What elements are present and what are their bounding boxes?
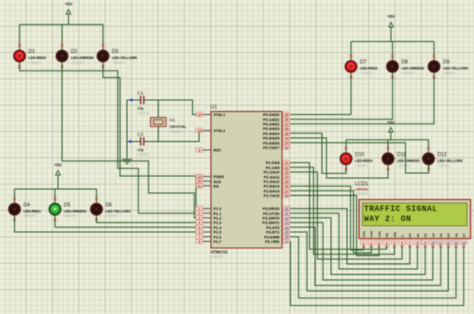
wire U1 P0.4 to D10 cathode: [291, 133, 347, 173]
wire C1 to U1 XTAL1: [144, 100, 203, 115]
LCD1 pin 12 D5: [445, 233, 451, 248]
svg-text:LED-GREEN3: LED-GREEN3: [397, 159, 420, 163]
svg-text:<TEXT>: <TEXT>: [24, 214, 37, 218]
svg-text:P3.1/TXD: P3.1/TXD: [263, 212, 280, 216]
wire crystal bottom pin: [157, 127, 159, 142]
svg-text:27: 27: [285, 189, 289, 193]
svg-text:PSEN: PSEN: [214, 175, 225, 179]
wire D8 cathode to U1 P0.1: [291, 72, 393, 119]
svg-text:25: 25: [285, 180, 289, 184]
svg-text:D5: D5: [64, 202, 71, 208]
svg-text:CRYSTAL: CRYSTAL: [170, 125, 188, 129]
U1 pin 39 P0.0/AD0: [263, 112, 290, 117]
U1 pin 11 P3.1/TXD: [263, 211, 290, 216]
svg-text:32: 32: [285, 146, 289, 150]
svg-text:P0.1/AD1: P0.1/AD1: [263, 118, 279, 122]
svg-text:LED-YELLOW1: LED-YELLOW1: [106, 209, 131, 213]
LCD1 pin 4 RS: [384, 233, 390, 248]
U1 pin 27 P2.6/A14: [264, 189, 291, 194]
wire rail to D5 anode: [54, 189, 56, 203]
svg-text:AT89C51: AT89C51: [211, 250, 229, 255]
U1 pin 1 P1.0: [196, 206, 221, 211]
svg-text:RS: RS: [385, 233, 389, 237]
U1 pin 25 P2.4/A12: [264, 179, 291, 184]
svg-text:P1.5: P1.5: [214, 231, 222, 235]
svg-text:15: 15: [285, 231, 289, 235]
wire rail to D11 anode: [387, 140, 389, 153]
LCD1 pin 8 D1: [415, 233, 421, 248]
svg-text:39: 39: [285, 113, 289, 117]
wire U1 P3.2 to LCD D2: [291, 218, 426, 275]
wire U1 P3.0 to LCD D0: [291, 209, 410, 265]
svg-text:LED-GREEN0: LED-GREEN0: [71, 56, 94, 60]
LED D10 LED-RED3: [340, 147, 372, 171]
svg-text:WAY 2: ON: WAY 2: ON: [364, 215, 411, 224]
LED D1 LED-RED0: [14, 44, 46, 68]
svg-text:30: 30: [198, 180, 202, 184]
LED D12 LED-YELLOW3: [423, 147, 463, 171]
svg-text:<TEXT>: <TEXT>: [29, 61, 42, 65]
svg-text:P1.4: P1.4: [214, 226, 223, 230]
svg-text:P3.0/RXD: P3.0/RXD: [263, 207, 280, 211]
svg-text:36: 36: [285, 127, 289, 131]
wire D2 cathode to U1 P1.2: [62, 62, 203, 218]
svg-text:D2: D2: [71, 49, 78, 55]
svg-text:7: 7: [409, 241, 411, 245]
wire rail to D2 anode: [61, 25, 63, 51]
svg-text:D2: D2: [424, 233, 428, 237]
U1 pin 37 P0.2/AD2: [263, 122, 290, 127]
U1 pin 6 P1.5: [196, 230, 221, 235]
U1 pin 23 P2.2/A10: [264, 170, 291, 175]
U1 pin 34 P0.5/AD5: [263, 136, 290, 141]
svg-text:D8: D8: [402, 60, 409, 66]
wire D7 cathode to U1 P0.0: [291, 72, 352, 114]
capacitor C2 22p: [127, 132, 150, 157]
crystal X1: [151, 100, 188, 142]
svg-text:+5V: +5V: [65, 2, 73, 7]
power +5V terminal (mid-left): [54, 163, 62, 190]
LCD1 pin 13 D6: [453, 233, 459, 248]
svg-text:28: 28: [285, 194, 289, 198]
U1 pin 7 P1.6: [196, 234, 221, 239]
svg-text:VEE: VEE: [377, 231, 381, 237]
U1 pin 19 XTAL1: [196, 112, 225, 117]
svg-text:3: 3: [199, 216, 201, 220]
svg-text:RST: RST: [214, 149, 222, 153]
LCD1 pin 10 D3: [430, 233, 436, 248]
U1 pin 2 P1.1: [196, 211, 221, 216]
svg-text:P0.3/AD3: P0.3/AD3: [263, 127, 279, 131]
LED D3 LED-YELLOW0: [97, 44, 137, 68]
wire rail to D4 anode: [14, 189, 16, 203]
wire U1 P3.1 to LCD D1: [291, 213, 418, 269]
LCD LCD1 LM016L display: [355, 182, 471, 239]
svg-text:14: 14: [462, 241, 466, 245]
wire D9 cathode to U1 P0.2: [291, 72, 435, 124]
wire U1 P3.7 to LCD D7: [291, 241, 464, 305]
wire U1 P2.5 to LCD VSS: [291, 186, 364, 250]
wire +5V rail (D10-D12): [346, 139, 429, 141]
svg-text:<TEXT>: <TEXT>: [170, 130, 183, 134]
svg-text:<TEXT>: <TEXT>: [438, 164, 451, 168]
svg-text:D0: D0: [408, 233, 412, 237]
svg-text:5: 5: [199, 226, 201, 230]
svg-text:23: 23: [285, 171, 289, 175]
U1 pin 30 ALE: [196, 179, 222, 184]
LED D6 LED-YELLOW1: [91, 197, 131, 221]
svg-text:XTAL1: XTAL1: [214, 113, 226, 117]
svg-text:31: 31: [198, 184, 202, 188]
wire U1 P2.0 to LCD RS: [291, 163, 387, 250]
svg-text:<TEXT>: <TEXT>: [402, 72, 415, 76]
U1 pin 8 P1.7: [196, 239, 221, 244]
svg-text:D10: D10: [355, 152, 364, 158]
power +5V terminal (top-left): [65, 2, 73, 25]
power +5V terminal (top-right): [387, 14, 395, 42]
wire U1 P2.6 to LCD VDD: [291, 191, 372, 253]
U1 pin 10 P3.0/RXD: [263, 206, 291, 211]
svg-text:P2.1/A9: P2.1/A9: [266, 166, 280, 170]
svg-text:37: 37: [285, 122, 289, 126]
svg-text:<TEXT>: <TEXT>: [360, 72, 373, 76]
U1 pin 3 P1.2: [196, 216, 221, 221]
svg-text:P3.5/T1: P3.5/T1: [266, 231, 279, 235]
svg-text:8: 8: [417, 241, 419, 245]
svg-text:22: 22: [285, 166, 289, 170]
svg-text:<TEXT>: <TEXT>: [64, 214, 77, 218]
svg-text:D11: D11: [397, 152, 406, 158]
LCD1 pin 14 D7: [461, 233, 467, 248]
svg-text:P2.5/A13: P2.5/A13: [264, 185, 280, 189]
svg-text:LED-RED2: LED-RED2: [360, 67, 378, 71]
U1 pin 13 P3.3/INT1: [262, 220, 290, 225]
svg-text:P3.6/WR: P3.6/WR: [264, 235, 279, 239]
U1 pin 31 EA: [196, 184, 219, 189]
LED D11 LED-GREEN3: [382, 147, 419, 171]
svg-text:D12: D12: [438, 152, 447, 158]
svg-text:D1: D1: [29, 49, 36, 55]
wire rail to D12 anode: [428, 140, 430, 153]
svg-text:<TEXT>: <TEXT>: [443, 72, 456, 76]
LED D8 LED-GREEN2: [387, 55, 424, 79]
svg-text:P1.1: P1.1: [214, 212, 222, 216]
svg-text:33: 33: [285, 141, 289, 145]
svg-text:4: 4: [199, 221, 201, 225]
LED D7 LED-RED2: [345, 55, 377, 79]
svg-text:P0.0/AD0: P0.0/AD0: [263, 113, 279, 117]
svg-text:22p: 22p: [138, 107, 145, 111]
svg-text:+5V: +5V: [54, 163, 62, 168]
wire U1 P2.2 to LCD E: [291, 172, 403, 259]
wire rail to D7 anode: [350, 42, 352, 61]
svg-text:18: 18: [198, 129, 202, 133]
svg-text:4: 4: [386, 241, 388, 245]
svg-text:LED-YELLOW3: LED-YELLOW3: [438, 159, 463, 163]
svg-text:D6: D6: [454, 233, 458, 237]
wire crystal top pin: [157, 100, 159, 118]
svg-text:+5V: +5V: [387, 14, 395, 19]
svg-text:LM016L: LM016L: [355, 188, 369, 192]
wire C1/C2 to ground: [126, 100, 128, 157]
svg-text:6: 6: [199, 231, 201, 235]
wire rail to D10 anode: [345, 140, 347, 153]
wire rail to D9 anode: [433, 42, 435, 61]
op-amp U1 AT89C51 microcontroller body: [211, 105, 283, 260]
U1 pin 14 P3.4/T0: [266, 225, 290, 230]
svg-text:LED-GREEN1: LED-GREEN1: [64, 209, 87, 213]
svg-text:XTAL2: XTAL2: [214, 129, 226, 133]
LCD1 pin 2 VDD: [368, 230, 374, 248]
svg-text:D6: D6: [106, 202, 113, 208]
svg-text:21: 21: [285, 161, 289, 165]
svg-text:P0.2/AD2: P0.2/AD2: [263, 123, 279, 127]
wire rail to D1 anode: [19, 25, 21, 51]
U1 pin 21 P2.0/A8: [266, 160, 291, 165]
svg-text:U1: U1: [211, 105, 218, 111]
svg-text:E: E: [401, 235, 405, 237]
svg-text:LED-RED0: LED-RED0: [29, 56, 47, 60]
wire D6 cathode to U1 P1.3: [97, 215, 203, 223]
svg-text:D4: D4: [24, 202, 31, 208]
svg-text:D9: D9: [443, 60, 450, 66]
svg-text:6: 6: [401, 241, 403, 245]
svg-text:<TEXT>: <TEXT>: [355, 164, 368, 168]
svg-text:3: 3: [378, 241, 380, 245]
svg-text:D7: D7: [462, 233, 466, 237]
svg-text:P1.7: P1.7: [214, 240, 222, 244]
svg-text:8: 8: [199, 240, 201, 244]
U1 pin 15 P3.5/T1: [266, 230, 290, 235]
svg-text:D3: D3: [431, 233, 435, 237]
svg-text:LED-YELLOW0: LED-YELLOW0: [112, 56, 137, 60]
svg-text:D7: D7: [360, 60, 367, 66]
LED D5 LED-GREEN1: [49, 197, 86, 221]
svg-text:<TEXT>: <TEXT>: [211, 255, 224, 259]
svg-text:X1: X1: [170, 118, 176, 123]
LCD1 pin 9 D2: [422, 233, 428, 248]
svg-text:<TEXT>: <TEXT>: [71, 61, 84, 65]
svg-text:1: 1: [199, 207, 201, 211]
U1 pin 17 P3.7/RD: [265, 239, 290, 244]
svg-text:9: 9: [199, 149, 201, 153]
U1 pin 32 P0.7/AD7: [263, 145, 290, 150]
LED D2 LED-GREEN0: [56, 44, 93, 68]
svg-text:D3: D3: [112, 49, 119, 55]
svg-text:13: 13: [285, 221, 289, 225]
U1 pin 9 RST: [196, 148, 222, 153]
svg-text:LED-RED1: LED-RED1: [24, 209, 42, 213]
svg-text:VSS: VSS: [362, 231, 366, 237]
wire +5V rail (D4-D6): [15, 188, 97, 190]
svg-text:12: 12: [446, 241, 450, 245]
ground (crystal caps): [122, 157, 132, 164]
U1 pin 35 P0.4/AD4: [263, 131, 290, 136]
LED D4 LED-RED1: [9, 197, 41, 221]
svg-text:P0.4/AD4: P0.4/AD4: [263, 132, 280, 136]
svg-text:7: 7: [199, 235, 201, 239]
svg-text:12: 12: [285, 216, 289, 220]
svg-text:C2: C2: [138, 132, 144, 137]
svg-text:C1: C1: [138, 91, 144, 96]
wire rail to D6 anode: [96, 189, 98, 203]
LCD1 pin 5 RW: [391, 232, 397, 247]
svg-text:P1.6: P1.6: [214, 235, 222, 239]
svg-text:P1.3: P1.3: [214, 221, 222, 225]
svg-text:14: 14: [285, 226, 289, 230]
wire rail to D8 anode: [392, 42, 394, 61]
svg-text:2: 2: [199, 212, 201, 216]
svg-text:5: 5: [393, 241, 395, 245]
U1 pin 4 P1.3: [196, 220, 221, 225]
svg-text:34: 34: [285, 137, 289, 141]
svg-text:P0.7/AD7: P0.7/AD7: [263, 146, 279, 150]
svg-text:P2.4/A12: P2.4/A12: [264, 180, 280, 184]
svg-text:D5: D5: [447, 233, 451, 237]
LCD1 pin 1 VSS: [361, 231, 367, 248]
svg-text:LED-YELLOW2: LED-YELLOW2: [443, 67, 468, 71]
LCD1 pin 3 VEE: [376, 231, 382, 248]
svg-text:19: 19: [198, 113, 202, 117]
wire U1 P3.5 to LCD D5: [291, 232, 449, 291]
U1 pin 29 PSEN: [196, 174, 224, 179]
wire U1 P0.5 to D11 cathode: [291, 138, 389, 178]
svg-text:17: 17: [285, 240, 289, 244]
capacitor C1 22p: [127, 91, 150, 116]
U1 pin 28 P2.7/A15: [264, 193, 291, 198]
svg-text:22p: 22p: [138, 148, 145, 152]
U1 pin 36 P0.3/AD3: [263, 126, 290, 131]
svg-text:P0.6/AD6: P0.6/AD6: [263, 141, 279, 145]
svg-text:9: 9: [424, 241, 426, 245]
U1 pin 12 P3.2/INT0: [262, 216, 290, 221]
svg-text:P2.2/A10: P2.2/A10: [264, 171, 280, 175]
svg-text:D4: D4: [439, 233, 443, 237]
svg-text:P0.5/AD5: P0.5/AD5: [263, 137, 279, 141]
svg-text:13: 13: [454, 241, 458, 245]
LCD1 pin 7 D0: [407, 233, 413, 248]
LCD1 pin 11 D4: [438, 233, 444, 248]
wire +5V rail (D7-D9): [351, 41, 434, 43]
svg-text:P2.3/A11: P2.3/A11: [264, 175, 280, 179]
wire U1 P3.4 to LCD D4: [291, 227, 441, 285]
svg-text:<TEXT>: <TEXT>: [397, 164, 410, 168]
LED D9 LED-YELLOW2: [428, 55, 468, 79]
svg-text:D1: D1: [416, 233, 420, 237]
svg-text:VDD: VDD: [370, 230, 374, 237]
power +5V terminal (mid-right): [387, 120, 395, 140]
svg-text:P3.3/INT1: P3.3/INT1: [262, 221, 279, 225]
U1 pin 22 P2.1/A9: [266, 165, 291, 170]
svg-text:<TEXT>: <TEXT>: [106, 214, 119, 218]
LCD1 pin 6 E: [399, 235, 405, 247]
U1 pin 38 P0.1/AD1: [263, 117, 290, 122]
svg-text:11: 11: [439, 241, 443, 245]
wire D3 cathode to U1 P1.0: [103, 62, 203, 209]
wire U1 P2.1 to LCD RW: [291, 167, 395, 254]
wire +5V rail (D1-D3): [20, 24, 104, 26]
svg-text:11: 11: [285, 212, 289, 216]
svg-text:10: 10: [431, 241, 435, 245]
svg-text:RW: RW: [393, 232, 397, 237]
wire U1 P3.6 to LCD D6: [291, 237, 457, 298]
svg-text:10: 10: [285, 207, 289, 211]
U1 pin 16 P3.6/WR: [264, 234, 290, 239]
svg-text:ALE: ALE: [214, 180, 222, 184]
svg-text:P1.2: P1.2: [214, 217, 222, 221]
svg-text:+5V: +5V: [387, 120, 395, 125]
svg-text:P3.7/RD: P3.7/RD: [265, 240, 280, 244]
svg-text:P1.0: P1.0: [214, 207, 222, 211]
svg-text:<TEXT>: <TEXT>: [112, 61, 125, 65]
U1 pin 5 P1.4: [196, 225, 222, 230]
svg-text:P2.0/A8: P2.0/A8: [266, 161, 280, 165]
svg-text:2: 2: [370, 241, 372, 245]
svg-text:<TEXT>: <TEXT>: [138, 153, 151, 157]
U1 pin 33 P0.6/AD6: [263, 140, 290, 145]
wire U1 P3.3 to LCD D3: [291, 223, 433, 280]
svg-text:38: 38: [285, 118, 289, 122]
U1 pin 18 XTAL2: [196, 128, 225, 133]
svg-text:26: 26: [285, 185, 289, 189]
wire D1 cathode to U1 P1.1: [20, 62, 203, 213]
svg-text:29: 29: [198, 175, 202, 179]
svg-text:1: 1: [363, 241, 365, 245]
svg-text:LED-GREEN2: LED-GREEN2: [402, 67, 425, 71]
svg-text:LED-RED3: LED-RED3: [355, 159, 373, 163]
svg-text:P3.2/INT0: P3.2/INT0: [262, 217, 279, 221]
wire C2 to U1 XTAL2: [144, 131, 203, 142]
wire rail to D3 anode: [102, 25, 104, 51]
svg-text:<TEXT>: <TEXT>: [138, 112, 151, 116]
U1 pin 26 P2.5/A13: [264, 184, 291, 189]
svg-text:EA: EA: [214, 185, 220, 189]
wire U1 P2.7 to LCD VEE: [291, 196, 380, 256]
svg-text:16: 16: [285, 235, 289, 239]
wire D5 cathode to U1 P1.4: [55, 215, 203, 227]
svg-text:35: 35: [285, 132, 289, 136]
svg-text:24: 24: [285, 175, 289, 179]
svg-text:P2.6/A14: P2.6/A14: [264, 189, 281, 193]
svg-text:P2.7/A15: P2.7/A15: [264, 194, 280, 198]
svg-text:TRAFFIC SIGNAL: TRAFFIC SIGNAL: [364, 205, 438, 214]
wire U1 P0.6 to D12 cathode: [291, 143, 429, 173]
svg-text:P3.4/T0: P3.4/T0: [266, 226, 279, 230]
wire D4 cathode to U1 P1.5: [15, 215, 203, 232]
U1 pin 24 P2.3/A11: [264, 174, 291, 179]
